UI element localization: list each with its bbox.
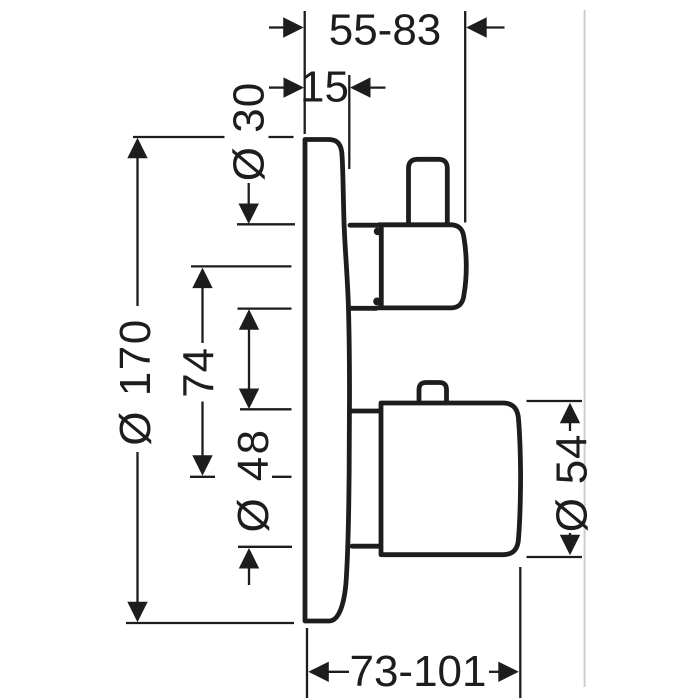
arrow 30 lower (points up): [239, 309, 259, 330]
svg-text:55-83: 55-83: [329, 6, 442, 55]
dim 74 bottom reference line: [190, 476, 292, 478]
dim 54 upper tail: [569, 421, 571, 431]
svg-text:15: 15: [300, 63, 349, 112]
arrow 48 lower (points up): [239, 548, 259, 569]
upper sleeve bottom line: [350, 306, 377, 311]
arrow 54 top (points up): [560, 403, 580, 424]
arrow 54 bottom (points down): [560, 535, 580, 556]
arrow 170 bottom (points down): [127, 602, 147, 623]
lower sleeve top line: [352, 409, 379, 414]
arrow 74 top (points up): [192, 268, 212, 289]
dim 30 upper arrow tail: [248, 183, 250, 206]
dim 170 top reference line: [133, 136, 294, 138]
extension line plate back: [348, 75, 350, 169]
arrow 15 right (points left): [350, 77, 371, 97]
arrow 73-101 right (points right): [498, 662, 519, 682]
lower sleeve bottom line: [352, 544, 379, 549]
shared tail between 30 and 48 arrows: [248, 327, 250, 391]
upper handle seam nub bottom: [373, 298, 381, 306]
dim 74 top reference line: [191, 265, 291, 267]
dim 74 upper tail: [201, 286, 203, 343]
escutcheon plate profile: [305, 140, 350, 622]
dim 48 bottom arrow tail: [248, 567, 250, 586]
arrow 170 top (points up): [127, 138, 147, 159]
upper sleeve top line: [350, 223, 376, 228]
dim 54 bottom reference line: [527, 556, 583, 558]
arrow 55-83 left (points right): [283, 17, 304, 37]
arrow 55-83 right (points left): [466, 17, 487, 37]
dim 30 bottom reference line (handle bottom): [238, 307, 292, 309]
svg-text:Ø 30: Ø 30: [225, 82, 274, 181]
dim 74 lower tail: [201, 402, 203, 459]
upper handle grip knob: [409, 159, 448, 223]
svg-text:Ø 54: Ø 54: [548, 434, 597, 533]
dim 15 left arrow tail: [269, 86, 285, 88]
faint vertical divider line: [584, 10, 586, 687]
lower handle top pip: [419, 383, 447, 403]
arrow 15 left (points right): [284, 77, 305, 97]
svg-text:Ø 48: Ø 48: [229, 428, 278, 533]
dim 54 lower tail: [569, 533, 571, 537]
arrow 30 upper (points down): [239, 204, 259, 225]
upper handle seam nub top: [374, 227, 382, 235]
upper handle seam: [379, 227, 384, 307]
dim 48 bottom reference line (sleeve bottom): [238, 546, 292, 548]
svg-text:Ø 170: Ø 170: [111, 318, 160, 445]
dim 55-83 left arrow tail: [269, 26, 285, 28]
extension line upper handle front: [464, 11, 466, 223]
dim 170 bottom reference line: [126, 622, 294, 624]
lower handle body outline: [381, 403, 521, 555]
svg-text:74: 74: [175, 347, 224, 398]
dim 73-101 right extension line: [519, 567, 521, 698]
dim 55-83 right arrow tail: [486, 26, 505, 28]
upper handle body outline: [379, 225, 467, 308]
svg-text:73-101: 73-101: [349, 647, 486, 696]
dim 54 top reference line: [527, 400, 583, 402]
arrow 48 upper (points down): [239, 389, 259, 410]
dim 73-101 right arrow tail: [489, 671, 500, 673]
dim 30 lower reference line (handle top): [237, 223, 295, 225]
dim 48 top reference line (sleeve top): [240, 408, 292, 410]
extension line plate front face: [304, 11, 306, 134]
dim 73-101 left extension line: [306, 628, 308, 698]
arrow 74 bottom (points down): [192, 455, 212, 476]
arrow 73-101 left (points left): [308, 662, 329, 682]
dim 73-101 left arrow tail: [327, 671, 349, 673]
dim 15 right arrow tail: [366, 86, 386, 88]
dim 170 vertical line: [136, 156, 138, 603]
